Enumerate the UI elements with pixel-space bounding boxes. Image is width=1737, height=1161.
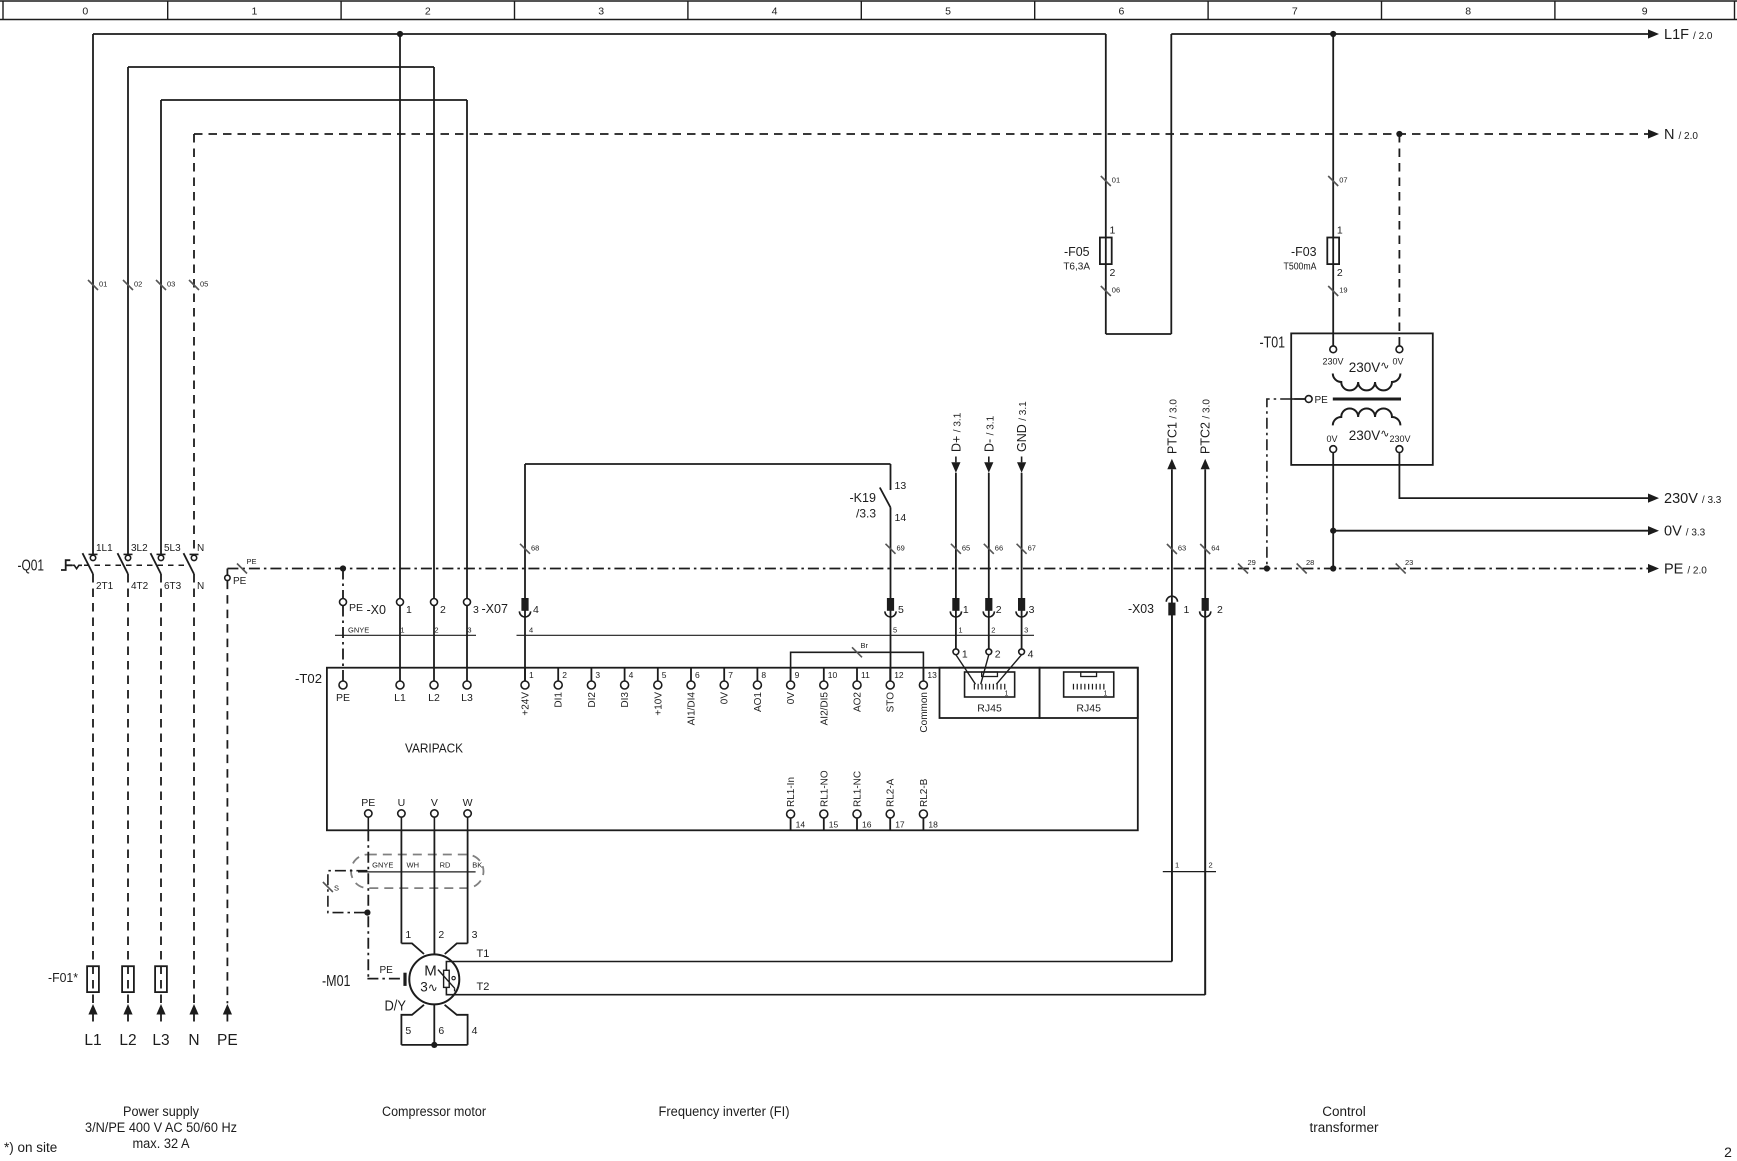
terminal X07 5 xyxy=(887,598,894,611)
wire U motor xyxy=(400,830,402,943)
svg-text:PE: PE xyxy=(247,557,257,566)
fuse F01 pole xyxy=(155,966,167,992)
thermistor temp mark xyxy=(452,976,455,979)
wire PTC2 drop xyxy=(1204,473,1206,995)
svg-text:L3: L3 xyxy=(152,1032,169,1049)
svg-text:4: 4 xyxy=(1028,649,1034,661)
cable line xyxy=(358,871,476,873)
svg-text:-X0: -X0 xyxy=(367,603,387,617)
svg-text:VARIPACK: VARIPACK xyxy=(405,741,463,756)
net arrow 230V / 3.3 xyxy=(1648,494,1659,503)
svg-text:05: 05 xyxy=(200,280,208,289)
svg-text:RJ45: RJ45 xyxy=(977,703,1002,715)
node junction shield to PE xyxy=(364,910,370,916)
svg-text:DI1: DI1 xyxy=(554,692,565,708)
wire supply PE dashed xyxy=(226,581,228,1004)
terminal T02 PE output xyxy=(365,810,372,817)
supply arrow PE xyxy=(223,1004,232,1015)
svg-text:AO2: AO2 xyxy=(853,692,864,712)
terminal T02 +10V pin 5 xyxy=(657,668,659,681)
svg-text:5L3: 5L3 xyxy=(164,543,181,554)
wire D- drop xyxy=(988,473,990,649)
svg-text:12: 12 xyxy=(894,670,904,680)
transformer T01 box xyxy=(1291,333,1433,465)
wire D+ drop xyxy=(955,473,957,649)
contact S tick xyxy=(323,882,333,892)
core line T01 xyxy=(1333,398,1401,401)
svg-text:GND / 3.1: GND / 3.1 xyxy=(1015,401,1029,452)
wire X0-1 to T02 xyxy=(399,606,401,682)
wire X03-1 drop xyxy=(1171,615,1173,961)
breaker Q01 trip unit xyxy=(61,560,72,570)
connector RJ45 right xyxy=(1064,672,1114,697)
wire PE T01 dash-dot xyxy=(1267,399,1305,569)
wire number 69 tick xyxy=(886,544,896,554)
wire V motor xyxy=(433,830,435,954)
svg-text:6: 6 xyxy=(438,1025,444,1037)
node junction PE to X0 xyxy=(340,565,346,571)
terminal T02 RL1-NC pin 16 xyxy=(853,810,861,818)
terminal T02 RL2-B pin 18 xyxy=(919,810,927,818)
wire L2 drop to Q01 xyxy=(127,67,129,554)
terminal RJ45 lead 1 xyxy=(953,649,959,655)
svg-text:3: 3 xyxy=(467,626,471,635)
wire supply phase dashed xyxy=(160,574,162,1003)
thermistor R in M01 xyxy=(444,970,450,987)
svg-text:5: 5 xyxy=(898,604,904,616)
svg-text:7: 7 xyxy=(1292,6,1298,18)
svg-text:2: 2 xyxy=(995,649,1001,661)
terminal 230V secondary xyxy=(1396,446,1403,453)
svg-text:03: 03 xyxy=(167,280,175,289)
terminal T02 RL2-A pin 17 xyxy=(886,810,894,818)
terminal X07 2 xyxy=(985,598,992,611)
svg-text:8: 8 xyxy=(1465,6,1471,18)
svg-text:2: 2 xyxy=(1337,267,1343,279)
svg-text:1: 1 xyxy=(1337,225,1343,237)
svg-text:PE: PE xyxy=(1315,395,1329,406)
svg-text:L3: L3 xyxy=(461,692,473,704)
svg-text:1: 1 xyxy=(400,626,404,635)
fuse F01 pole xyxy=(122,966,134,992)
net arrow GND xyxy=(1021,457,1023,463)
svg-text:N: N xyxy=(197,581,204,592)
svg-text:-F03: -F03 xyxy=(1291,244,1317,259)
node junction N to T01 xyxy=(1396,131,1402,137)
svg-text:T1: T1 xyxy=(477,948,490,960)
svg-text:0V: 0V xyxy=(1392,357,1403,367)
wire number 67 tick xyxy=(1017,544,1027,554)
svg-text:5: 5 xyxy=(893,626,897,635)
svg-text:PE: PE xyxy=(380,965,394,976)
svg-text:AO1: AO1 xyxy=(753,692,764,712)
net arrow D- xyxy=(988,457,990,463)
svg-text:1: 1 xyxy=(963,604,969,616)
wire number 63 tick xyxy=(1167,544,1177,554)
wire L2 to X0-2 lower xyxy=(433,598,435,600)
svg-text:0V: 0V xyxy=(720,692,731,705)
terminal 0V secondary xyxy=(1330,446,1337,453)
wire number 28 tick xyxy=(1297,564,1307,574)
svg-text:230V∿: 230V∿ xyxy=(1349,428,1390,443)
svg-text:9: 9 xyxy=(1642,6,1648,18)
svg-text:AI1/DI4: AI1/DI4 xyxy=(687,692,698,726)
svg-text:2: 2 xyxy=(562,670,567,680)
fuse F05 xyxy=(1100,238,1112,265)
svg-text:16: 16 xyxy=(862,820,872,830)
svg-text:3: 3 xyxy=(598,6,604,18)
svg-text:-T01: -T01 xyxy=(1260,335,1286,352)
wire GND to RJ45 pin xyxy=(996,655,1021,685)
svg-text:+10V: +10V xyxy=(653,692,664,716)
svg-text:RL2-B: RL2-B xyxy=(919,778,930,807)
wire L3 drop to X0-3 xyxy=(466,100,468,599)
wire number 65 tick xyxy=(951,544,961,554)
terminal T02 PE xyxy=(339,681,347,689)
svg-text:PE: PE xyxy=(217,1032,238,1049)
terminal T02 Common pin 13 xyxy=(922,668,924,681)
node junction 0V to PE xyxy=(1330,565,1336,571)
svg-text:1: 1 xyxy=(405,929,411,941)
svg-text:*) on site: *) on site xyxy=(4,1140,57,1155)
wire U T02 stub xyxy=(400,817,402,830)
svg-text:2: 2 xyxy=(1209,861,1213,870)
svg-text:230V: 230V xyxy=(1322,357,1343,367)
svg-text:PE: PE xyxy=(336,692,350,704)
svg-text:N: N xyxy=(197,543,204,554)
terminal T02 W output xyxy=(464,810,471,817)
svg-text:4: 4 xyxy=(533,604,539,616)
wire PE into T01 xyxy=(1291,398,1305,400)
wire PE T02 stub xyxy=(367,817,369,830)
wire D- to RJ45 pin xyxy=(981,655,989,685)
svg-text:4: 4 xyxy=(772,6,778,18)
svg-text:01: 01 xyxy=(99,280,107,289)
net arrow 0V / 3.3 xyxy=(1648,526,1659,535)
node junction L1 branch xyxy=(397,31,403,37)
svg-text:68: 68 xyxy=(531,543,539,552)
svg-text:230V: 230V xyxy=(1389,434,1410,444)
terminal T02 L2 xyxy=(430,681,438,689)
wire star bridge xyxy=(401,1044,467,1046)
wire L3 top run xyxy=(161,99,467,101)
svg-text:-F01*: -F01* xyxy=(48,970,78,985)
net arrow PE / 2.0 xyxy=(1648,564,1659,573)
svg-text:N / 2.0: N / 2.0 xyxy=(1664,127,1698,143)
svg-text:67: 67 xyxy=(1028,543,1036,552)
terminal T02 L1 xyxy=(396,681,404,689)
svg-text:PTC1 / 3.0: PTC1 / 3.0 xyxy=(1165,399,1179,454)
terminal X03 2 xyxy=(1202,598,1209,611)
net arrow D+ xyxy=(955,457,957,463)
winding primary T01 xyxy=(1333,374,1401,391)
terminal RJ45 lead 2 xyxy=(986,649,992,655)
svg-text:64: 64 xyxy=(1211,544,1219,553)
svg-text:L2: L2 xyxy=(428,692,440,704)
svg-text:1: 1 xyxy=(1104,691,1108,698)
wire PE X0 to T02 dash-dot xyxy=(342,606,344,682)
svg-text:/3.3: /3.3 xyxy=(856,507,876,521)
net arrow PTC2 xyxy=(1201,459,1210,470)
svg-text:DI2: DI2 xyxy=(587,692,598,708)
svg-text:-F05: -F05 xyxy=(1064,244,1090,259)
wire L1 drop to Q01 xyxy=(92,34,94,554)
wire U jog to motor xyxy=(401,943,424,954)
terminal 0V primary xyxy=(1396,346,1403,353)
terminal X03 1 xyxy=(1168,603,1175,616)
connector RJ45 left xyxy=(965,672,1015,697)
wire shield loop dash-dot xyxy=(328,871,368,913)
terminal T02 AO1 pin 8 xyxy=(756,668,758,681)
net arrow PTC1 xyxy=(1167,459,1176,470)
wire number line X07 xyxy=(517,634,1035,636)
svg-text:23: 23 xyxy=(1405,558,1413,567)
svg-text:Compressor motor: Compressor motor xyxy=(382,1104,486,1119)
svg-text:230V / 3.3: 230V / 3.3 xyxy=(1664,491,1722,507)
wire L1F top segment left xyxy=(93,33,1106,35)
svg-text:PTC2 / 3.0: PTC2 / 3.0 xyxy=(1199,399,1213,454)
svg-text:2: 2 xyxy=(1110,267,1116,279)
node junction star point xyxy=(431,1042,437,1048)
wire PE to X0 dash-dot xyxy=(342,569,344,599)
svg-text:3: 3 xyxy=(473,604,479,616)
winding secondary T01 xyxy=(1333,408,1401,425)
svg-text:17: 17 xyxy=(895,820,905,830)
wire 0V to arrow xyxy=(1333,530,1648,532)
wire number 68 tick xyxy=(520,544,530,554)
terminal T02 DI2 pin 3 xyxy=(590,668,592,681)
svg-text:RJ45: RJ45 xyxy=(1076,703,1101,715)
wire 230V out xyxy=(1399,453,1648,499)
terminal T02 DI3 pin 4 xyxy=(624,668,626,681)
wire F05 return bottom xyxy=(1106,333,1172,335)
fuse F03 xyxy=(1327,238,1339,265)
wire number Br tick xyxy=(852,647,862,657)
terminal T02 0V pin 9 xyxy=(790,668,792,681)
svg-text:L2: L2 xyxy=(119,1032,136,1049)
svg-text:28: 28 xyxy=(1306,558,1314,567)
svg-text:GNYE: GNYE xyxy=(372,861,393,870)
wire F03 feed xyxy=(1332,34,1334,346)
wire W T02 stub xyxy=(467,817,469,830)
svg-text:Common: Common xyxy=(919,692,930,733)
svg-text:14: 14 xyxy=(796,820,806,830)
svg-text:-K19: -K19 xyxy=(850,490,877,505)
svg-text:+24V: +24V xyxy=(521,692,532,716)
svg-text:0V: 0V xyxy=(786,692,797,705)
wire X03-2 drop xyxy=(1204,611,1206,994)
svg-text:D+ / 3.1: D+ / 3.1 xyxy=(949,412,963,452)
wire L1F top segment right xyxy=(1171,33,1648,35)
wire L3 drop to Q01 xyxy=(160,100,162,554)
wire thermistor to T1 xyxy=(446,962,1172,971)
svg-text:M: M xyxy=(424,963,437,980)
svg-text:L1F / 2.0: L1F / 2.0 xyxy=(1664,27,1713,43)
svg-text:max. 32 A: max. 32 A xyxy=(133,1136,190,1151)
svg-text:AI2/DI5: AI2/DI5 xyxy=(819,692,830,726)
svg-text:-T02: -T02 xyxy=(295,671,322,686)
svg-text:WH: WH xyxy=(407,861,420,870)
svg-text:6: 6 xyxy=(1118,6,1124,18)
terminal T02 AO2 pin 11 xyxy=(856,668,858,681)
RJ45 port box 2 xyxy=(1040,668,1138,718)
svg-text:1: 1 xyxy=(406,604,412,616)
svg-text:L1: L1 xyxy=(394,692,406,704)
node junction PE to T01 xyxy=(1264,565,1270,571)
terminal X07 1 xyxy=(952,598,959,611)
svg-text:63: 63 xyxy=(1178,544,1186,553)
motor M01 circle xyxy=(409,954,459,1004)
svg-text:PE / 2.0: PE / 2.0 xyxy=(1664,562,1707,578)
wire number 66 tick xyxy=(984,544,994,554)
svg-text:29: 29 xyxy=(1248,558,1256,567)
svg-text:19: 19 xyxy=(1339,286,1347,295)
svg-text:-X07: -X07 xyxy=(482,601,509,616)
svg-text:2T1: 2T1 xyxy=(96,581,114,592)
wire W motor xyxy=(467,830,469,943)
wire number line X03 xyxy=(1163,871,1216,873)
wire D+ to RJ45 pin xyxy=(956,655,976,685)
wire number 05 tick xyxy=(189,280,199,290)
svg-text:01: 01 xyxy=(1112,176,1120,185)
breaker Q01 linkage dashed xyxy=(84,564,190,566)
svg-text:1: 1 xyxy=(1175,861,1179,870)
svg-text:-M01: -M01 xyxy=(322,973,351,990)
wire number 01 tick xyxy=(88,280,98,290)
wire number 06 tick xyxy=(1101,286,1111,296)
svg-text:RL2-A: RL2-A xyxy=(886,778,897,807)
contact K19 13-14 xyxy=(890,464,892,490)
svg-text:W: W xyxy=(463,797,473,809)
wire 0V out xyxy=(1332,453,1334,569)
svg-text:02: 02 xyxy=(134,280,142,289)
svg-text:6T3: 6T3 xyxy=(164,581,182,592)
wire X0-2 to T02 xyxy=(433,606,435,682)
wire number 19 tick xyxy=(1328,286,1338,296)
svg-text:5: 5 xyxy=(405,1025,411,1037)
svg-text:1: 1 xyxy=(251,6,257,18)
wire PE motor dash-dot xyxy=(367,830,369,978)
wire N bus dashed xyxy=(194,133,1648,135)
svg-text:0V / 3.3: 0V / 3.3 xyxy=(1664,524,1706,540)
svg-text:PE: PE xyxy=(349,602,363,614)
wire number line X0 xyxy=(335,634,476,636)
svg-text:1: 1 xyxy=(529,670,534,680)
wire number 07 tick xyxy=(1328,176,1338,186)
svg-text:RL1-NO: RL1-NO xyxy=(819,770,830,807)
svg-text:DI3: DI3 xyxy=(620,692,631,708)
svg-text:69: 69 xyxy=(897,543,905,552)
svg-text:2: 2 xyxy=(1217,604,1223,616)
svg-text:7: 7 xyxy=(728,670,733,680)
node junction F03 branch xyxy=(1330,31,1336,37)
svg-text:07: 07 xyxy=(1339,176,1347,185)
terminal T02 0V pin 7 xyxy=(723,668,725,681)
wire number 03 tick xyxy=(156,280,166,290)
svg-text:1L1: 1L1 xyxy=(96,543,113,554)
svg-text:U: U xyxy=(398,797,406,809)
svg-text:230V∿: 230V∿ xyxy=(1349,360,1390,375)
terminal PE T01 xyxy=(1305,396,1312,403)
svg-text:Br: Br xyxy=(861,641,869,650)
svg-text:GNYE: GNYE xyxy=(348,626,369,635)
svg-text:18: 18 xyxy=(928,820,938,830)
node junction 0V arrow xyxy=(1330,528,1336,534)
wire PTC1 drop xyxy=(1171,473,1173,962)
svg-text:3L2: 3L2 xyxy=(131,543,148,554)
svg-text:RD: RD xyxy=(440,861,451,870)
svg-text:-X03: -X03 xyxy=(1128,602,1154,616)
svg-text:1: 1 xyxy=(1110,225,1116,237)
svg-text:4: 4 xyxy=(629,670,634,680)
terminal T02 V output xyxy=(431,810,438,817)
wire supply phase dashed xyxy=(92,574,94,1003)
terminal T02 STO pin 12 xyxy=(889,668,891,681)
wire PE corner to terminal xyxy=(226,569,228,576)
svg-text:4: 4 xyxy=(472,1025,478,1037)
svg-text:1: 1 xyxy=(962,649,968,661)
svg-text:8: 8 xyxy=(761,670,766,680)
svg-text:2: 2 xyxy=(438,929,444,941)
terminal X0 PE xyxy=(340,599,347,606)
wire F05 feed xyxy=(1105,34,1107,334)
svg-text:1: 1 xyxy=(1005,691,1009,698)
svg-text:65: 65 xyxy=(962,543,970,552)
svg-text:L1: L1 xyxy=(84,1032,101,1049)
RJ45 port box 1 xyxy=(940,668,1040,718)
svg-text:D- / 3.1: D- / 3.1 xyxy=(982,415,996,452)
frequency inverter T02 box xyxy=(327,668,1138,831)
terminal T02 AI1/DI4 pin 6 xyxy=(690,668,692,681)
wire motor 4 leg xyxy=(445,1005,468,1045)
svg-text:06: 06 xyxy=(1112,286,1120,295)
svg-text:2: 2 xyxy=(440,604,446,616)
wire supply phase dashed xyxy=(127,574,129,1003)
terminal T02 +24V pin 1 xyxy=(524,668,526,681)
terminal X07 3 xyxy=(1018,598,1025,611)
wire number 23 tick xyxy=(1396,564,1406,574)
svg-text:PE: PE xyxy=(233,576,247,587)
wire PE to motor bar xyxy=(367,978,403,980)
svg-text:9: 9 xyxy=(795,670,800,680)
terminal PE circle xyxy=(225,575,230,580)
svg-text:4: 4 xyxy=(529,626,533,635)
terminal T02 U output xyxy=(398,810,405,817)
wire N branch to transformer dashed xyxy=(1398,134,1400,346)
svg-text:0: 0 xyxy=(82,6,88,18)
terminal X07 4 xyxy=(521,598,528,611)
supply arrow L2 xyxy=(123,1004,132,1015)
wire number 64 tick xyxy=(1200,544,1210,554)
terminal T02 RL1-NO pin 15 xyxy=(820,810,828,818)
svg-text:14: 14 xyxy=(895,512,907,524)
svg-text:2: 2 xyxy=(1724,1144,1732,1160)
svg-text:4T2: 4T2 xyxy=(131,581,149,592)
svg-text:RL1-NC: RL1-NC xyxy=(853,771,864,807)
ground bar M01 xyxy=(403,973,406,986)
svg-text:STO: STO xyxy=(886,692,897,713)
svg-text:T6,3A: T6,3A xyxy=(1063,262,1090,273)
svg-text:5: 5 xyxy=(662,670,667,680)
svg-text:V: V xyxy=(431,797,438,809)
breaker Q01 pole N xyxy=(190,553,199,555)
wire N drop to Q01 dashed xyxy=(193,134,195,554)
wire number 01 tick xyxy=(1101,176,1111,186)
wire supply N dashed xyxy=(193,574,195,1003)
terminal X0 3 xyxy=(464,599,471,606)
net arrow N / 2.0 xyxy=(1648,129,1659,138)
terminal 230V primary xyxy=(1330,346,1337,353)
